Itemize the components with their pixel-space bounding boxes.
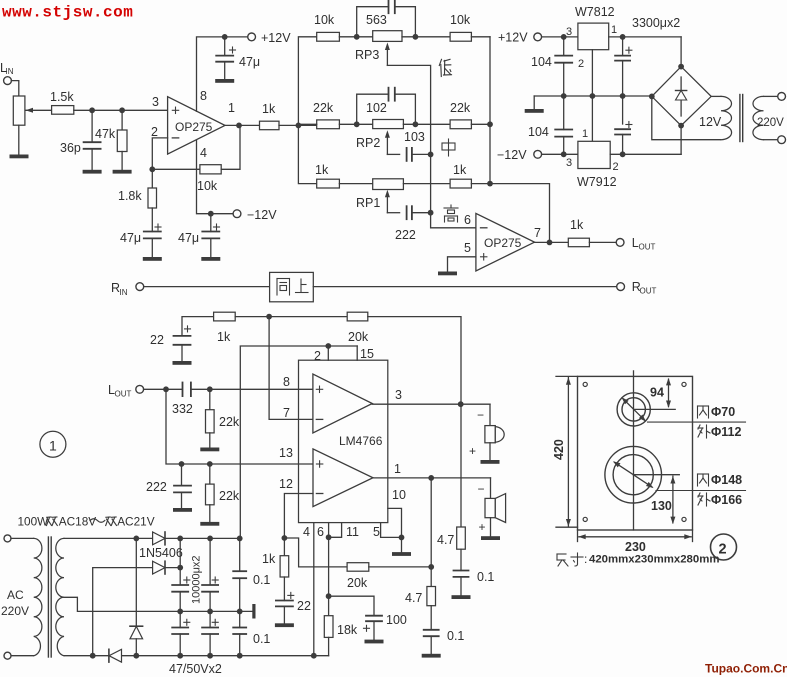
diode D1 1N5406 <box>153 532 165 545</box>
svg-text:6: 6 <box>464 213 471 227</box>
wire woofer drop <box>490 478 492 499</box>
svg-text:−: − <box>478 482 485 496</box>
wire mid rail <box>534 95 652 97</box>
capacitor 222 ch2 <box>181 464 183 486</box>
svg-text:100: 100 <box>386 613 407 627</box>
resistor 22k row2 right <box>450 120 471 129</box>
capacitor 47u left <box>155 226 161 228</box>
terminal Rout <box>617 283 625 291</box>
dim 94 arrow <box>668 379 670 406</box>
node right bus row3 dot <box>487 181 493 187</box>
node 22k2 dot <box>207 461 213 467</box>
svg-text:−12V: −12V <box>247 208 277 222</box>
input terminal Lin <box>4 77 12 85</box>
svg-text:OUT: OUT <box>639 243 656 252</box>
wire pin510 gnd <box>401 537 403 552</box>
wire 1.5k to opamp <box>74 109 168 111</box>
node 3300 top dot <box>620 34 626 40</box>
ground pin5-10 <box>392 552 411 556</box>
capacitor 102 loop <box>357 94 389 124</box>
wire row1 to right bus <box>471 36 490 38</box>
svg-text:8: 8 <box>283 375 290 389</box>
svg-text:20k: 20k <box>347 576 368 590</box>
capacitor 104 bottom <box>563 96 565 130</box>
label zhong (mid) <box>442 139 455 156</box>
bridge rectifier D5 <box>652 67 711 126</box>
svg-text:AC: AC <box>7 588 24 602</box>
resistor 1k fb ch1 <box>214 312 236 321</box>
wire U1 output <box>225 124 260 126</box>
amplifier IC LM4766 box <box>299 360 388 522</box>
node mute2 dot <box>326 593 332 599</box>
wire AC top <box>11 537 34 539</box>
woofer hole inner <box>613 455 653 495</box>
svg-text:222: 222 <box>395 228 416 242</box>
wire pin8 to +12V <box>197 37 252 111</box>
label wai phi166 <box>698 493 710 506</box>
U1 - input symbol <box>172 137 178 139</box>
wire tone bus up <box>298 37 316 126</box>
resistor 10k row1 left <box>317 32 340 41</box>
resistor 22k row2 left <box>317 120 340 129</box>
svg-text:8: 8 <box>200 89 207 103</box>
wire dotA to 20k2 <box>284 538 347 567</box>
wire box to Rout <box>313 286 616 288</box>
RP3 wiper arrow <box>386 46 388 65</box>
resistor 22k in ch2 <box>209 464 211 484</box>
diode D3 <box>130 625 143 627</box>
wire 20k to out column <box>368 317 461 405</box>
wire center tap <box>64 597 180 611</box>
svg-text:0.1: 0.1 <box>447 629 464 643</box>
node neg dot4 <box>237 653 243 659</box>
ground 36p <box>83 170 102 174</box>
node D2 dot <box>177 565 183 571</box>
svg-text:0.1: 0.1 <box>477 570 494 584</box>
terminal -12V psu <box>534 150 542 158</box>
svg-text:47μ: 47μ <box>239 55 260 69</box>
screw hole BL <box>583 517 587 521</box>
dim 420 arrow <box>567 378 569 526</box>
svg-text:332: 332 <box>172 402 193 416</box>
node tone input dot <box>296 123 302 129</box>
wire row1 a <box>339 36 372 38</box>
label nei phi70 <box>698 406 709 418</box>
transformer T1 core <box>47 537 49 657</box>
svg-text:230: 230 <box>625 540 646 554</box>
svg-text:AC18V: AC18V <box>59 515 97 529</box>
node mute dot A <box>282 535 288 541</box>
ground tweeter <box>481 460 500 464</box>
svg-text:Tupao.Com.Cn: Tupao.Com.Cn <box>705 662 787 676</box>
node neg pin4 dot <box>311 653 317 659</box>
svg-text:Φ70: Φ70 <box>711 405 735 419</box>
wire pin3 out <box>372 403 490 405</box>
pointer line phi70 <box>648 421 746 423</box>
svg-text:AC21V: AC21V <box>117 515 155 529</box>
svg-text:+12V: +12V <box>261 31 291 45</box>
wire +12V rail <box>542 36 578 38</box>
node B dot <box>119 107 125 113</box>
chassis tick <box>252 604 255 619</box>
dim 230 arrow <box>579 536 691 538</box>
svg-text:47/50Vx2: 47/50Vx2 <box>169 662 222 676</box>
wire D2 out <box>165 567 180 569</box>
ground 47u left <box>143 257 162 261</box>
svg-text:22k: 22k <box>219 415 240 429</box>
node bridge bottom dot <box>678 123 684 129</box>
ground 22 mute <box>275 623 294 627</box>
svg-text:222: 222 <box>146 480 167 494</box>
wire D1 out <box>165 537 240 539</box>
U2 - input symbol <box>481 227 487 229</box>
wire Rin to box <box>144 286 270 288</box>
wire Lout down <box>166 389 182 464</box>
svg-text:2: 2 <box>314 349 321 363</box>
node 222 bus dot <box>428 210 434 216</box>
svg-text:47μ: 47μ <box>120 231 141 245</box>
ground zobel B <box>422 654 441 658</box>
svg-text:10k: 10k <box>197 179 218 193</box>
svg-text:220V: 220V <box>757 117 784 129</box>
label wai phi112 <box>698 425 710 438</box>
svg-text:130: 130 <box>651 499 672 513</box>
U1 + input symbol <box>172 109 178 111</box>
wire RP2 wiper to 103 <box>387 153 399 155</box>
resistor 1k Lout <box>568 238 589 247</box>
svg-text:−12V: −12V <box>497 148 527 162</box>
regulator W7812 <box>578 23 609 50</box>
ground 47u mid <box>201 257 220 261</box>
speaker box outline <box>578 376 693 530</box>
svg-text:94: 94 <box>650 386 664 400</box>
svg-text:OP275: OP275 <box>175 120 213 134</box>
node ac A dot <box>133 536 139 542</box>
woofer hole outer <box>605 446 662 503</box>
svg-text:3300μx2: 3300μx2 <box>632 16 680 30</box>
svg-text:10k: 10k <box>314 13 335 27</box>
transformer T2 core <box>739 95 741 142</box>
svg-text:4.7: 4.7 <box>405 591 422 605</box>
capacitor 563 loop <box>357 7 389 37</box>
svg-text:+: + <box>469 444 476 458</box>
svg-text:4: 4 <box>200 146 207 160</box>
wire T2 primary top <box>764 95 778 97</box>
svg-text:LM4766: LM4766 <box>339 434 383 448</box>
ext line 420 bottom <box>556 526 578 528</box>
node fb ch1 dot <box>266 314 272 320</box>
node row1 left dot <box>354 34 360 40</box>
pointer line phi148 <box>656 490 746 492</box>
svg-text:1: 1 <box>611 24 617 36</box>
node -12V dot <box>208 211 214 217</box>
node 332 out dot <box>207 386 213 392</box>
node -12V rail dot <box>561 151 567 157</box>
pin 2 stub <box>327 346 329 360</box>
svg-text:1k: 1k <box>453 163 467 177</box>
ground 47k <box>113 170 132 174</box>
wire 4.7B to cap <box>430 606 432 630</box>
wire 1k to Lout <box>589 241 616 243</box>
wire W7912 out <box>610 153 681 155</box>
wire zobel B col <box>430 478 432 587</box>
resistor 1k mute <box>283 538 285 556</box>
RP2 wiper arrow <box>386 134 388 155</box>
node mid b dot2 <box>207 609 213 615</box>
ground U2 <box>438 272 457 276</box>
svg-text:10: 10 <box>392 488 406 502</box>
ground 100 <box>365 640 384 644</box>
node pin5-10 dot <box>399 535 405 541</box>
block tongshang (same as above) <box>270 272 314 301</box>
svg-text:4.7: 4.7 <box>437 533 454 547</box>
wire bottom rail <box>64 655 329 657</box>
potentiometer RP1 <box>373 179 404 190</box>
svg-text:7: 7 <box>534 226 541 240</box>
svg-text:3: 3 <box>395 388 402 402</box>
dim line tweeter center <box>634 408 676 410</box>
svg-text:1k: 1k <box>217 330 231 344</box>
node feedback dot <box>149 166 155 172</box>
svg-text:2: 2 <box>151 125 158 139</box>
wire bus to U2 output <box>490 184 550 243</box>
regulator W7912 <box>578 141 610 168</box>
resistor 10k row1 right <box>450 32 471 41</box>
svg-text:1k: 1k <box>315 163 329 177</box>
svg-text:3: 3 <box>152 95 159 109</box>
resistor 10k feedback <box>152 168 200 170</box>
svg-text:20k: 20k <box>348 330 369 344</box>
node mid b dot1 <box>177 609 183 615</box>
svg-text:2: 2 <box>578 58 584 70</box>
terminal -12V <box>233 210 241 218</box>
terminal 220V bottom <box>778 136 786 144</box>
ground 22k ch1 <box>200 448 219 452</box>
capacitor 3300u bottom <box>622 96 624 124</box>
svg-text:47μ: 47μ <box>178 231 199 245</box>
svg-text:1: 1 <box>394 462 401 476</box>
svg-text:1N5406: 1N5406 <box>139 546 183 560</box>
capacitor 47-50 b <box>209 611 211 627</box>
circled number 1 marker <box>40 431 66 457</box>
amp B - symbol <box>316 493 322 495</box>
resistor 20k fb ch2 <box>347 563 369 572</box>
tweeter diameter arrow <box>623 399 645 420</box>
wire fb row mid <box>235 316 347 318</box>
svg-text:1.5k: 1.5k <box>50 90 74 104</box>
wire sec top rail <box>64 537 153 539</box>
wire pin2 to feedback node <box>152 138 167 169</box>
wire rail dn to bridge <box>680 126 682 155</box>
capacitor 3300u top <box>622 37 624 56</box>
svg-text:10000μx2: 10000μx2 <box>191 555 203 604</box>
capacitor 0.1 B <box>424 629 439 631</box>
svg-text:102: 102 <box>366 101 387 115</box>
wire -12V rail <box>542 153 578 155</box>
resistor 22k in ch1 <box>209 389 211 409</box>
svg-text:W7912: W7912 <box>577 175 617 189</box>
capacitor 104 top <box>563 37 565 56</box>
wire row2 a <box>298 123 316 125</box>
wire row1 b <box>402 36 450 38</box>
capacitor 22 mute <box>288 594 294 596</box>
svg-text:RP3: RP3 <box>355 48 379 62</box>
op-amp U2 OP275 <box>476 213 535 271</box>
node row1 right dot <box>413 34 419 40</box>
wire pin10 <box>388 508 402 537</box>
node pin1 dot <box>236 123 242 129</box>
wire rail up to bridge <box>680 37 682 67</box>
svg-text:6: 6 <box>317 525 324 539</box>
node row2 right dot <box>413 121 419 127</box>
amp B + symbol <box>316 463 322 465</box>
wire row2 b <box>403 123 450 125</box>
svg-text:1k: 1k <box>262 102 276 116</box>
svg-text:IN: IN <box>120 288 128 297</box>
resistor 1.8k <box>151 169 153 188</box>
svg-text:+12V: +12V <box>498 31 528 45</box>
svg-text:13: 13 <box>279 446 293 460</box>
capacitor 10000u a <box>184 579 190 581</box>
resistor 1k row3 right <box>450 179 471 188</box>
node A dot <box>89 107 95 113</box>
potentiometer RP2 <box>373 120 404 129</box>
transformer T2 secondary 12V <box>721 96 732 139</box>
wire pin4 to -12V <box>197 141 238 214</box>
svg-text:420: 420 <box>552 439 566 460</box>
capacitor 0.1 psu bottom <box>239 611 241 627</box>
capacitor 10000u b <box>212 579 218 581</box>
resistor 1k output <box>260 121 280 130</box>
wire W7812 pin2 down <box>591 50 593 142</box>
ext line 230 right <box>692 530 694 542</box>
transformer T2 primary 220V <box>753 96 764 139</box>
wire 103 to bus <box>412 153 431 155</box>
terminal AC bottom <box>4 652 11 659</box>
wire row3 a <box>339 183 372 185</box>
svg-text:1: 1 <box>49 438 57 454</box>
wire gnd stem <box>533 96 535 109</box>
wire row2 to right bus <box>471 123 490 125</box>
wire tone bus down <box>298 125 316 183</box>
svg-text:1: 1 <box>582 128 588 140</box>
ground 22k ch2 <box>200 522 219 526</box>
svg-text:Φ112: Φ112 <box>711 425 741 439</box>
capacitor 222 tone <box>406 206 408 219</box>
wire mid rail bottom <box>180 610 254 612</box>
wire fb row left end <box>182 317 214 336</box>
node neg dot2 <box>177 653 183 659</box>
wire row3 to right bus <box>471 183 490 185</box>
tweeter hole inner <box>622 398 645 421</box>
svg-text:W7812: W7812 <box>575 5 615 19</box>
LM4766 amp B triangle <box>313 449 373 507</box>
svg-text:RP1: RP1 <box>356 196 380 210</box>
capacitor 47u top <box>224 37 226 56</box>
wire pin4 stub <box>313 523 315 656</box>
svg-text:22: 22 <box>297 599 311 613</box>
woofer diameter arrow <box>615 462 653 487</box>
terminal 220V top <box>778 93 786 101</box>
screw hole TR <box>682 382 686 386</box>
node +12V dot <box>222 34 228 40</box>
wire 222 to bus <box>412 212 431 214</box>
node pin2 dot <box>325 343 331 349</box>
node Lout dot <box>163 386 169 392</box>
terminal AC top <box>4 535 11 542</box>
svg-text:15: 15 <box>360 347 374 361</box>
svg-text:47k: 47k <box>95 127 116 141</box>
wire wiper to 1.5k <box>26 109 52 111</box>
svg-text:5: 5 <box>373 525 380 539</box>
capacitor 47-50 a <box>179 611 181 627</box>
svg-text:0.1: 0.1 <box>253 573 270 587</box>
amp A + symbol <box>316 388 322 390</box>
svg-text:www.stjsw.com: www.stjsw.com <box>2 4 133 22</box>
svg-text:104: 104 <box>528 125 549 139</box>
resistor 20k fb ch1 <box>347 312 368 321</box>
svg-text:1: 1 <box>228 101 235 115</box>
wire pin1 out <box>373 477 491 479</box>
node out A dot <box>458 401 464 407</box>
capacitor 22 ch1 <box>185 328 191 330</box>
svg-text:IN: IN <box>6 67 14 76</box>
svg-text:4: 4 <box>303 525 310 539</box>
svg-text:220V: 220V <box>1 604 29 618</box>
svg-text:Φ166: Φ166 <box>711 493 742 507</box>
screw hole TL <box>583 382 587 386</box>
terminal Lout top <box>616 239 624 247</box>
svg-text:2: 2 <box>613 161 619 173</box>
svg-text:103: 103 <box>404 130 425 144</box>
ext line 420 top <box>556 375 578 377</box>
capacitor 332 <box>182 383 184 397</box>
amp A - symbol <box>316 418 322 420</box>
potentiometer RP volume <box>13 96 25 125</box>
node right bus row2 dot <box>487 121 493 127</box>
capacitor 0.1 psu top <box>239 538 241 571</box>
node out B dot <box>428 475 434 481</box>
svg-text:OUT: OUT <box>640 287 657 296</box>
dim 130 arrow <box>672 476 674 523</box>
capacitor 100 <box>366 615 382 617</box>
terminal Rin <box>136 283 144 291</box>
circled number 2 marker <box>711 534 737 560</box>
capacitor 47u mid <box>210 214 212 232</box>
resistor 1k row3 left <box>317 179 340 188</box>
svg-text:OP275: OP275 <box>484 236 522 250</box>
node row2 left dot <box>354 121 360 127</box>
resistor 47k <box>121 110 123 130</box>
svg-text:7: 7 <box>283 406 290 420</box>
node U2 out dot <box>547 240 553 246</box>
label gao (treble) <box>444 205 458 222</box>
ground pot <box>10 155 29 159</box>
wire RP1 wiper to 222 <box>387 212 399 214</box>
U2 + input symbol <box>481 256 487 258</box>
wire Lin to pot <box>11 81 18 96</box>
svg-text:22k: 22k <box>450 101 471 115</box>
svg-text:12: 12 <box>279 477 293 491</box>
wire zobel A col <box>460 404 462 527</box>
svg-text:22: 22 <box>150 333 164 347</box>
wire Vplus riser <box>240 346 357 538</box>
dim line woofer center <box>633 474 679 476</box>
resistor 18k <box>324 616 333 638</box>
wire ac B col <box>93 568 153 656</box>
wire AC bottom <box>11 655 34 657</box>
node zobel B dot <box>428 564 434 570</box>
